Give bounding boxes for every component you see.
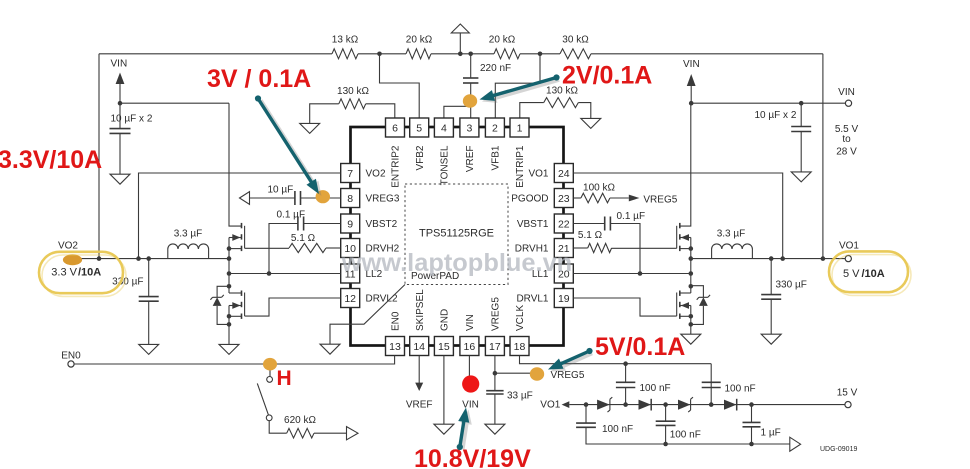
node VO1 sense junction [821, 256, 826, 261]
svg-text:3.3 µF: 3.3 µF [174, 229, 203, 240]
resistor R6 130 kOhm right [544, 98, 579, 108]
resistor R7 5.1 Ohm [289, 243, 326, 252]
transistor Q1 source stub [229, 248, 242, 250]
svg-text:VIN: VIN [462, 399, 479, 410]
svg-text:2: 2 [492, 122, 498, 134]
svg-text:5: 5 [416, 122, 422, 134]
capacitor C2 10uF x2 left [110, 128, 131, 130]
svg-text:DRVL1: DRVL1 [516, 294, 548, 305]
svg-text:VCLK: VCLK [515, 305, 526, 331]
node C6 junction [146, 256, 151, 261]
node LL1 bootstrap junction [638, 271, 643, 276]
transistor Q4 arrow [681, 302, 689, 309]
wire pin22 VBST1 [573, 223, 604, 225]
svg-text:VO2: VO2 [58, 240, 78, 251]
wire VO1 output [691, 258, 845, 260]
capacitor C4 10uF vreg3 [294, 191, 296, 205]
svg-text:20 kΩ: 20 kΩ [489, 35, 516, 46]
svg-text:13 kΩ: 13 kΩ [332, 35, 359, 46]
resistor R4 30 kOhm [560, 49, 591, 59]
svg-text:100 nF: 100 nF [640, 383, 671, 394]
resistor R5 130 kOhm left [339, 99, 366, 109]
capacitor C9 33uF [486, 390, 503, 392]
pin 15 box [434, 337, 453, 356]
switch S1 bottom contact [266, 415, 272, 421]
annotation arrow to VIN [461, 410, 472, 450]
node pump top junction [623, 361, 628, 366]
pin 7 box [341, 164, 360, 183]
node pin7 junction [136, 256, 141, 261]
ground G5 under C6 [139, 344, 159, 354]
svg-text:VFB1: VFB1 [491, 145, 502, 170]
vin right up-arrow [687, 74, 696, 86]
wire R6 right [578, 103, 591, 119]
wire pin21 DRVH1 [573, 247, 587, 249]
wire R5 left [310, 104, 339, 124]
svg-text:22: 22 [558, 218, 570, 230]
node zener2 bottom junction [689, 322, 694, 327]
svg-text:8: 8 [347, 193, 353, 205]
wire R8 to marker [314, 432, 347, 434]
wire pin10 DRVH2 [326, 247, 341, 249]
wire Q4 source rail to ground [690, 306, 692, 335]
capacitor C1 220 nF [463, 77, 478, 79]
svg-text:5V/0.1A: 5V/0.1A [595, 333, 685, 361]
annotation marker dot VREG3 [316, 190, 330, 203]
pin 22 box [554, 214, 573, 233]
svg-text:18: 18 [514, 341, 526, 353]
svg-text:15: 15 [438, 341, 450, 353]
transistor Q3 source stub [680, 248, 691, 250]
capacitor C10 100nF top1 [616, 381, 635, 383]
svg-text:100 kΩ: 100 kΩ [583, 183, 615, 194]
svg-text:0.1 µF: 0.1 µF [617, 211, 646, 222]
wire pin17 VREG5 drop [494, 356, 496, 391]
wire pin15 GND drop [443, 356, 445, 425]
transistor Q1 channel [241, 223, 243, 228]
pgood right arrow marker [629, 195, 640, 202]
node zener bottom junction [227, 322, 232, 327]
wire pin20 LL1 [573, 273, 691, 275]
svg-text:17: 17 [489, 341, 501, 353]
pin 10 box [341, 239, 360, 258]
svg-text:VBST1: VBST1 [517, 219, 549, 230]
annotation marker dot VREG5 [530, 367, 544, 381]
annotation marker dot VREF [463, 94, 477, 108]
pin 4 box [434, 118, 453, 137]
node VREF junction dots [458, 52, 463, 57]
wire rail R1-R2 [358, 53, 406, 55]
svg-text:620 kΩ: 620 kΩ [284, 415, 316, 426]
node pump bottom n2 [749, 442, 754, 447]
node pin17 junction [493, 371, 498, 376]
wire C4 to arrow [250, 197, 295, 199]
svg-text:VREG5: VREG5 [643, 195, 677, 206]
wire Q2 source rail to ground [228, 306, 230, 345]
terminal VIN [845, 100, 851, 106]
transistor Q3 channel [679, 223, 681, 228]
transistor Q2 arrow [232, 302, 240, 309]
svg-text:100 nF: 100 nF [725, 384, 756, 395]
pin 11 box [341, 264, 360, 283]
capacitor C8 330uF [761, 294, 781, 296]
IC U1 TPS51125RGE body [351, 127, 564, 346]
transistor Q1 drain [229, 103, 242, 226]
transistor Q4 body stub [680, 305, 691, 307]
wire VIN left to rail [120, 102, 229, 104]
capacitor C6 330uF [139, 296, 159, 298]
terminal EN0 [68, 361, 74, 367]
node switch node left [227, 256, 232, 261]
ground G2 left 130k [300, 123, 320, 133]
svg-text:VBST2: VBST2 [366, 219, 398, 230]
switch S1 top contact [267, 377, 273, 383]
skipsel down arrow marker [415, 383, 423, 391]
pump right arrow marker [790, 437, 801, 451]
wire pin14 SKIPSEL drop [418, 356, 420, 384]
wire TONSEL pin4 jog [444, 106, 470, 118]
wire Q1 source rail [228, 238, 230, 259]
wire pin16 VIN drop [468, 356, 470, 385]
pin 24 box [554, 164, 573, 183]
resistor R8 620 kOhm [287, 428, 314, 438]
wire pin9 VBST2 [304, 223, 341, 225]
svg-text:VREF: VREF [465, 146, 476, 173]
ground G10 pin15 [434, 424, 454, 434]
svg-text:2V/0.1A: 2V/0.1A [562, 62, 652, 90]
node C3 junction [799, 101, 804, 106]
diode D6 zener leads [691, 286, 704, 298]
wire pin8 VREG3 [301, 197, 341, 199]
node B junction VFB1 [538, 52, 543, 57]
transistor Q4 drain stub [680, 292, 691, 294]
svg-text:0.1 µF: 0.1 µF [277, 210, 306, 221]
ground G1 left input [110, 174, 130, 184]
pin 12 box [341, 289, 360, 308]
svg-text:VO1: VO1 [540, 399, 560, 410]
svg-text:4: 4 [441, 122, 447, 134]
wire VREG5 stub [495, 372, 531, 374]
svg-text:TPS51125RGE: TPS51125RGE [419, 228, 494, 240]
diode D3 schottky [678, 400, 690, 410]
node VO2 sense corner [98, 54, 100, 259]
svg-text:5 V: 5 V [843, 268, 860, 280]
svg-text:EN0: EN0 [391, 311, 402, 331]
capacitor C14 1uF [743, 421, 761, 423]
capacitor C12 100nF bottom1 [576, 422, 596, 424]
diode D4 [724, 400, 737, 410]
svg-text:3V / 0.1A: 3V / 0.1A [207, 65, 311, 93]
annotation arrow to VREG3 [261, 101, 322, 197]
pin 2 box [485, 118, 504, 137]
node LL2 bootstrap junction [267, 271, 272, 276]
svg-text:5.1 Ω: 5.1 Ω [291, 233, 316, 244]
svg-text:VIN: VIN [683, 59, 700, 70]
pin 1 box [510, 118, 529, 137]
ground G9 powerpad [320, 344, 340, 354]
svg-text:VO1: VO1 [528, 169, 548, 180]
node pump n2 [623, 402, 628, 407]
pin 17 box [485, 337, 504, 356]
svg-text:PGOOD: PGOOD [511, 194, 548, 205]
wire R5 to pin6 [366, 104, 395, 118]
svg-text:5.1 Ω: 5.1 Ω [578, 230, 603, 241]
node A junction VFB2 [377, 52, 382, 57]
wire rail LL1 to Q4 [690, 259, 692, 293]
transistor Q2 channel [241, 291, 243, 296]
svg-text:/10A: /10A [862, 268, 885, 280]
node VIN left junction [118, 101, 123, 106]
svg-text:H: H [277, 367, 292, 390]
terminal 15V [845, 402, 851, 408]
svg-text:UDG-09019: UDG-09019 [820, 446, 857, 453]
svg-text:/10A: /10A [78, 266, 101, 278]
svg-text:12: 12 [344, 293, 356, 305]
svg-text:7: 7 [347, 168, 353, 180]
ground G4 right input [791, 172, 811, 182]
wire VFB2 top rail left segment [99, 53, 332, 55]
node pump n5 [749, 402, 754, 407]
ground G6 under Q2 [219, 344, 239, 354]
pin 5 box [410, 118, 429, 137]
node zener top junction [227, 284, 232, 289]
svg-text:10.8V/19V: 10.8V/19V [414, 445, 531, 469]
node pump n1 [584, 402, 589, 407]
svg-text:VIN: VIN [838, 87, 855, 98]
annotation marker dot EN0 [263, 358, 277, 371]
wire VO2 output [78, 258, 229, 260]
node C8 junction [769, 256, 774, 261]
annotation arrow to VREF [482, 80, 559, 103]
svg-text:3.3 µF: 3.3 µF [717, 229, 746, 240]
wire C5 to LL2 [269, 224, 298, 274]
wire pin12 DRVL2 jog [245, 298, 341, 316]
transistor Q1 gate bar [244, 226, 246, 249]
wire rail R3-R4 [520, 53, 560, 55]
capacitor C3 10uF x2 right [791, 126, 811, 128]
svg-text:100 nF: 100 nF [602, 424, 633, 435]
wire VO1 sense drop [822, 54, 824, 259]
svg-text:EN0: EN0 [61, 351, 81, 362]
node pump n4 [709, 402, 714, 407]
IC PowerPAD dashed region [405, 184, 508, 285]
resistor R2 20 kOhm left [406, 49, 431, 59]
pin 18 box [510, 337, 529, 356]
svg-text:23: 23 [558, 193, 570, 205]
svg-text:13: 13 [389, 341, 401, 353]
transistor Q1 body stub [229, 237, 242, 239]
wire pin11 LL2 [229, 273, 341, 275]
vreg3 left arrow marker [240, 192, 250, 205]
transistor Q2 gate bar [244, 293, 246, 317]
node LL1 rail junction [689, 271, 694, 276]
pin 20 box [554, 264, 573, 283]
switch S1 blade [257, 383, 268, 414]
capacitor C5 0.1uF vbst2 [297, 217, 299, 231]
wire PowerPAD to ground [330, 285, 405, 345]
transistor Q4 channel [679, 291, 681, 296]
svg-text:3.3 V: 3.3 V [51, 266, 77, 278]
annotation ellipse VO1 [829, 251, 908, 292]
svg-text:VREG5: VREG5 [551, 370, 585, 381]
svg-text:3: 3 [466, 122, 472, 134]
wire pin23 PGOOD [573, 197, 581, 199]
svg-text:30 kΩ: 30 kΩ [562, 35, 589, 46]
svg-text:VREG5: VREG5 [491, 297, 502, 331]
resistor R1 13 kOhm [332, 49, 358, 59]
transistor Q4 source stub [680, 315, 691, 317]
node LL2 rail junction [227, 271, 232, 276]
svg-text:SKIPSEL: SKIPSEL [415, 289, 426, 331]
transistor Q2 source stub [229, 315, 242, 317]
node Q2 source junction [227, 314, 232, 319]
wire R7 to Q1 gate [245, 247, 289, 249]
wire pin18 VCLK to pump [520, 356, 712, 364]
svg-text:3.3V/10A: 3.3V/10A [0, 146, 102, 174]
inductor L1 3.3uH [168, 244, 209, 259]
svg-text:VFB2: VFB2 [415, 145, 426, 170]
node pump bottom n1 [663, 442, 668, 447]
vo1 left arrow marker [562, 401, 570, 408]
node zener2 top junction [689, 284, 694, 289]
resistor R3 20 kOhm right [494, 49, 520, 59]
node pump n3 [663, 402, 668, 407]
svg-text:ENTRIP2: ENTRIP2 [391, 145, 402, 188]
transistor Q3 arrow [681, 234, 689, 241]
wire R9 to arrow [610, 197, 629, 199]
wire VIN right feed [691, 102, 845, 104]
svg-text:28 V: 28 V [836, 146, 857, 157]
diode D5 body [213, 297, 222, 306]
vin red marker dot [462, 375, 479, 392]
pin 23 box [554, 189, 573, 208]
svg-text:20 kΩ: 20 kΩ [406, 35, 433, 46]
transistor Q3 body stub [680, 237, 691, 239]
svg-text:VIN: VIN [111, 59, 128, 70]
svg-text:10 µF x 2: 10 µF x 2 [755, 110, 797, 121]
wire VFB2 pin5 jog [380, 54, 420, 118]
svg-text:ENTRIP1: ENTRIP1 [515, 145, 526, 188]
transistor Q3 drain [680, 103, 691, 226]
svg-text:220 nF: 220 nF [480, 63, 511, 74]
svg-text:15 V: 15 V [837, 387, 858, 398]
svg-text:VREG3: VREG3 [366, 194, 400, 205]
wire C7 to LL1 [610, 224, 640, 274]
vin left up-arrow [116, 73, 125, 85]
pin 19 box [554, 289, 573, 308]
annotation marker blob VO2 [63, 254, 82, 265]
ground G8 under C8 [761, 334, 781, 344]
svg-text:VO2: VO2 [366, 169, 386, 180]
wire pump bottom [666, 443, 790, 445]
svg-text:100 nF: 100 nF [670, 430, 701, 441]
transistor Q2 body stub [229, 305, 242, 307]
inductor L2 3.3uH [712, 244, 753, 259]
pin 6 box [386, 118, 405, 137]
svg-text:www.laptopblue.vn: www.laptopblue.vn [341, 249, 572, 277]
svg-text:16: 16 [464, 341, 476, 353]
wire pin24 VO1 sense [573, 173, 782, 259]
svg-text:14: 14 [413, 341, 425, 353]
annotation arrow to VREG5 [551, 353, 593, 372]
svg-text:VIN: VIN [465, 314, 476, 331]
transistor Q4 gate bar [676, 293, 678, 317]
vref up-arrow marker [451, 24, 469, 33]
svg-text:6: 6 [392, 122, 398, 134]
terminal VO1 [845, 256, 851, 262]
pin 9 box [341, 214, 360, 233]
annotation ellipse VO2 [39, 252, 123, 293]
resistor R9 100 kOhm [581, 193, 610, 203]
svg-text:1: 1 [517, 122, 523, 134]
diode D6 cathode bar [697, 295, 710, 300]
svg-text:130 kΩ: 130 kΩ [337, 86, 369, 97]
ground G11 pin17 [485, 424, 505, 434]
wire pin13 EN0 drop [74, 356, 395, 365]
terminal VO2 [72, 256, 78, 262]
pin 16 box [460, 337, 479, 356]
wire VFB1 pin2 jog [495, 54, 540, 118]
diode D6 body [699, 297, 708, 306]
capacitor C11 100nF top2 [702, 381, 721, 383]
node pin24 junction [780, 256, 785, 261]
wire pump top right drop [710, 364, 712, 405]
pin 3 box [460, 118, 479, 137]
diode D5 cathode bar [210, 295, 223, 300]
svg-text:VO1: VO1 [839, 240, 859, 251]
switch S1 stub [269, 364, 271, 376]
wire pin19 DRVL1 jog [573, 298, 676, 316]
resistor R10 5.1 Ohm [588, 243, 612, 252]
transistor Q1 arrow [232, 234, 240, 241]
en0 right arrow marker [347, 427, 359, 440]
wire rail LL2 to Q2 [228, 259, 230, 293]
pin 8 box [341, 189, 360, 208]
svg-text:24: 24 [558, 168, 570, 180]
svg-text:10 µF x 2: 10 µF x 2 [111, 114, 153, 125]
capacitor C13 100nF bottom2 [656, 420, 676, 422]
svg-text:GND: GND [440, 309, 451, 331]
node Q1 source junction [227, 246, 232, 251]
ground G3 right 130k [581, 118, 601, 128]
pin 14 box [410, 337, 429, 356]
node VIN right junction [689, 101, 694, 106]
svg-text:to: to [842, 134, 851, 145]
diode D5 zener leads [217, 286, 229, 297]
wire R10 to Q3 gate [612, 247, 677, 249]
transistor Q3 gate bar [676, 226, 678, 249]
node switch node right [689, 256, 694, 261]
svg-text:VREF: VREF [406, 400, 433, 411]
wire Q3 source rail [690, 238, 692, 259]
ground G7 under Q4 [681, 334, 701, 344]
svg-text:330 µF: 330 µF [776, 280, 807, 291]
svg-text:33 µF: 33 µF [507, 391, 533, 402]
wire S1 to R8 [269, 421, 287, 433]
svg-text:9: 9 [347, 218, 353, 230]
wire pump main [569, 404, 845, 406]
capacitor C7 0.1uF vbst1 [604, 217, 606, 231]
svg-text:19: 19 [558, 293, 570, 305]
node VO2 sense junction [97, 256, 102, 261]
wire pin7 VO2 sense [139, 173, 341, 259]
svg-text:1 µF: 1 µF [761, 427, 781, 438]
svg-text:TONSEL: TONSEL [440, 145, 451, 185]
diode D1 schottky [597, 400, 610, 410]
transistor Q2 drain stub [229, 292, 242, 294]
diode D2 [639, 400, 652, 410]
node Q3 source junction [689, 246, 694, 251]
